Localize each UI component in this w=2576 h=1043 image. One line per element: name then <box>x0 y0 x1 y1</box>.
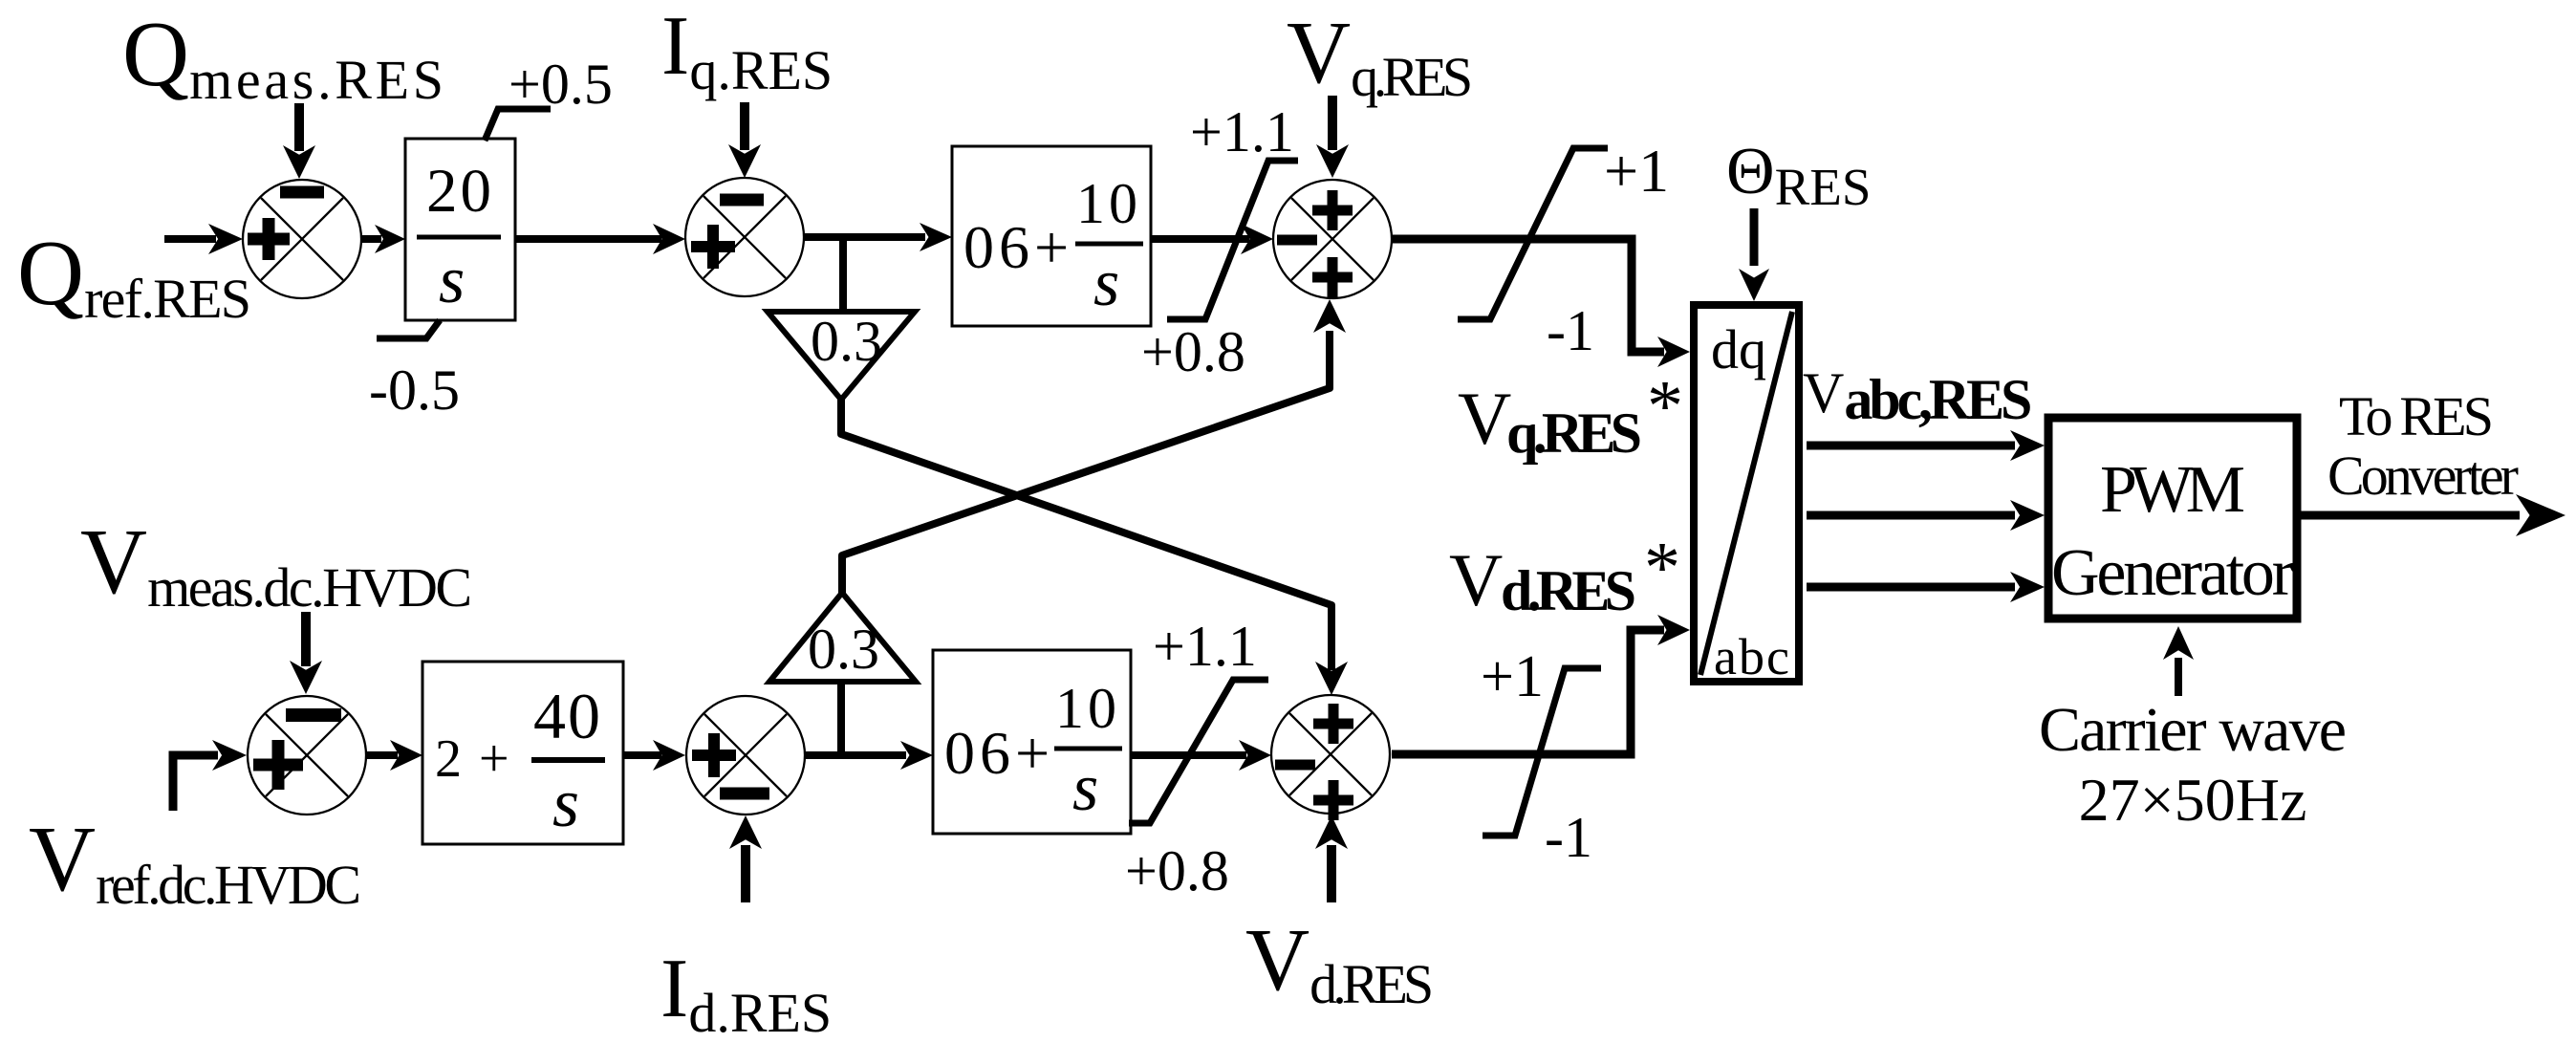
svg-text:Converter: Converter <box>2327 445 2519 507</box>
svg-text:40: 40 <box>533 680 602 752</box>
svg-text:*: * <box>1644 528 1680 608</box>
label +1 (top chain) <box>1604 137 1669 205</box>
svg-text:+1: +1 <box>1481 644 1544 709</box>
label Vabc,RES <box>1803 361 2032 431</box>
saturation mark B2 upper limit <box>1167 161 1298 319</box>
saturation mark B1 lower limit <box>377 320 440 338</box>
wire dq to PWM phase a <box>1807 430 2045 461</box>
dq/abc diagonal divider <box>1700 312 1792 675</box>
wire branch down to gain T1 <box>839 237 847 312</box>
label +1 (bottom chain) <box>1481 644 1544 709</box>
label Qref.RES <box>17 222 251 330</box>
summing junction J4 <box>248 696 366 815</box>
svg-text:06+: 06+ <box>944 719 1054 787</box>
svg-text:+0.8: +0.8 <box>1125 839 1229 902</box>
svg-text:-1: -1 <box>1545 806 1592 869</box>
wire carrier wave up arrow into PWM <box>2163 626 2194 696</box>
svg-text:V: V <box>1449 538 1503 621</box>
svg-text:10: 10 <box>1055 677 1120 740</box>
svg-text:dq: dq <box>1711 318 1766 380</box>
label abc <box>1714 628 1791 685</box>
BOTTOM_CHAIN <box>29 511 1690 1043</box>
svg-text:To RES: To RES <box>2339 385 2494 447</box>
svg-text:s: s <box>1072 751 1098 825</box>
wire theta down arrow into dq block <box>1739 208 1769 301</box>
label Vref.dc.HVDC <box>29 808 361 916</box>
label Vq.RES* <box>1458 366 1683 465</box>
svg-text:Vabc,RES: Vabc,RES <box>1803 361 2032 431</box>
svg-text:Carrier wave: Carrier wave <box>2039 695 2347 765</box>
wire J3 output to dq block <box>1392 239 1664 352</box>
svg-text:2 +: 2 + <box>435 729 511 789</box>
J3 plus sign (top) <box>1312 190 1353 230</box>
wire Vq.RES down arrow <box>1316 96 1349 178</box>
label Vd.RES <box>1245 911 1434 1015</box>
wire B3 to J5 <box>623 740 685 771</box>
J4 minus sign (top) <box>286 708 341 722</box>
svg-text:q.RES: q.RES <box>1506 402 1642 465</box>
wire dq to PWM phase b <box>1807 500 2045 531</box>
saturation mark S3 on J3 output <box>1458 148 1608 319</box>
J3 minus sign (left) <box>1277 235 1317 246</box>
label +0.8 (top) <box>1141 320 1245 383</box>
wire B4 to J6 <box>1131 740 1271 771</box>
label Iq.RES <box>661 0 833 101</box>
wire PWM output to RES converter <box>2301 494 2565 536</box>
svg-text:d.RES: d.RES <box>1501 559 1636 622</box>
label -0.5 <box>369 359 460 422</box>
J5 plus sign (left) <box>692 733 736 777</box>
svg-text:-0.5: -0.5 <box>369 359 460 422</box>
svg-text:*: * <box>1647 366 1683 446</box>
wire Id.RES up arrow into J5 <box>729 815 762 902</box>
J1 minus sign (top) <box>280 186 324 199</box>
label Vq.RES <box>1287 4 1473 108</box>
svg-text:abc: abc <box>1714 628 1791 685</box>
label +0.8 (bottom) <box>1125 839 1229 902</box>
wire Qmeas.RES down arrow <box>283 103 315 179</box>
label dq <box>1711 318 1766 380</box>
svg-text:s: s <box>1093 247 1119 320</box>
label Vd.RES* <box>1449 528 1680 622</box>
label Vmeas.dc.HVDC <box>80 511 472 619</box>
label +1.1 (bottom) <box>1153 615 1257 678</box>
block B1 integrator 20/s <box>405 139 515 320</box>
wire Vref.dc.HVDC elbow input arrow <box>173 740 247 811</box>
wire J4 to block B3 <box>366 740 422 771</box>
wire Iq.RES down arrow <box>728 102 761 178</box>
summing junction J6 <box>1271 695 1390 814</box>
svg-text:s: s <box>552 765 579 841</box>
label -1 (bottom chain) <box>1545 806 1592 869</box>
label Id.RES <box>660 943 832 1043</box>
gain triangle T1 0.3 <box>768 312 915 400</box>
wire Qref.RES input arrow <box>164 224 243 254</box>
label theta RES <box>1726 135 1871 216</box>
J6 plus sign (top) <box>1313 704 1353 744</box>
summing junction J2 <box>685 178 804 296</box>
TOP_CHAIN <box>17 0 1690 695</box>
wire J1 to block B1 <box>361 225 405 253</box>
wire J2 to block B2 with branch node <box>804 223 952 251</box>
wire T2 output diagonal to J3 bottom <box>842 331 1330 593</box>
summing junction J5 <box>686 696 805 815</box>
wire B1 to J2 <box>515 224 685 254</box>
svg-text:+1.1: +1.1 <box>1153 615 1257 678</box>
wire Vmeas.dc.HVDC down arrow <box>290 612 322 694</box>
label +1.1 (top) <box>1190 100 1294 163</box>
svg-text:20: 20 <box>426 157 494 226</box>
svg-text:PWM: PWM <box>2100 453 2245 527</box>
label To RES Converter <box>2327 385 2519 507</box>
J3 plus sign (bottom) <box>1312 257 1353 297</box>
svg-text:+0.5: +0.5 <box>509 53 613 116</box>
svg-text:10: 10 <box>1076 172 1141 235</box>
block B2 PI 0.6+10/s <box>952 146 1151 326</box>
J2 minus sign (top) <box>720 194 764 206</box>
J2 plus sign (left) <box>691 225 735 269</box>
svg-text:+0.8: +0.8 <box>1141 320 1245 383</box>
wire Vd.RES up arrow into J6 <box>1315 815 1348 902</box>
label -1 (top chain) <box>1547 299 1594 362</box>
block dq/abc transform <box>1694 305 1799 682</box>
svg-text:0.3: 0.3 <box>808 618 879 681</box>
svg-text:06+: 06+ <box>963 213 1073 281</box>
label +0.5 <box>509 53 613 116</box>
wire J5 to block B4 with branch node <box>805 741 933 770</box>
summing junction J1 <box>243 180 361 298</box>
block B4 PI 0.6+10/s <box>933 650 1131 834</box>
saturation mark B4 upper limit <box>1129 680 1268 823</box>
J6 minus sign (left) <box>1275 760 1315 771</box>
J1 plus sign (left) <box>248 218 290 260</box>
wire J6 output to dq block <box>1392 630 1664 754</box>
J4 plus sign (left) <box>253 740 303 790</box>
wire branch up to gain T2 <box>837 682 845 755</box>
gain triangle T2 0.3 <box>769 593 916 682</box>
svg-text:+1.1: +1.1 <box>1190 100 1294 163</box>
J6 plus sign (bottom) <box>1313 780 1353 820</box>
svg-text:V: V <box>1458 377 1511 460</box>
summing junction J3 <box>1273 180 1392 298</box>
svg-text:27×50Hz: 27×50Hz <box>2079 766 2307 834</box>
saturation mark B1 upper limit <box>485 109 551 141</box>
RIGHT_SIDE <box>1694 135 2565 834</box>
saturation mark S5 on J6 output <box>1483 668 1601 836</box>
label Carrier wave <box>2039 695 2347 765</box>
wire dq to PWM phase c <box>1807 572 2045 602</box>
svg-text:-1: -1 <box>1547 299 1594 362</box>
label Qmeas.RES <box>122 3 444 111</box>
svg-text:+1: +1 <box>1604 137 1669 205</box>
svg-text:Generator: Generator <box>2051 536 2294 610</box>
J5 minus sign (bottom) <box>720 788 769 800</box>
svg-text:0.3: 0.3 <box>811 310 882 373</box>
label 27x50Hz <box>2079 766 2307 834</box>
block PWM Generator <box>2048 418 2297 619</box>
block B3 PI 2+40/s <box>422 662 623 844</box>
wire B2 to J3 <box>1151 224 1273 254</box>
svg-text:s: s <box>439 244 465 317</box>
wire T1 output diagonal to J6 <box>841 400 1331 670</box>
